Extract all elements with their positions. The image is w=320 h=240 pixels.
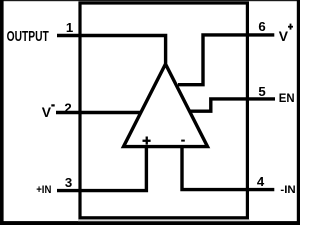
op-amp minus input marker [181,140,185,142]
wire pin6 V+ to op-amp right edge [178,35,274,85]
frame right bar [297,0,300,225]
wire pin1 OUTPUT to op-amp apex [57,36,166,64]
frame bottom bar [0,221,300,225]
svg-text:V: V [279,28,289,44]
label V+ [279,24,293,44]
svg-text:+IN: +IN [36,184,51,196]
wire pin3 +IN to op-amp base [57,147,146,191]
op-amp plus input marker [143,137,151,145]
wire pin5 EN to op-amp right edge [190,99,275,111]
wire pin2 V- to op-amp left edge [56,111,141,114]
frame left bar [0,0,4,225]
svg-text:3: 3 [65,175,72,190]
wire pin4 -IN to op-amp base [182,147,274,190]
svg-text:2: 2 [64,100,71,115]
svg-text:V: V [42,104,52,120]
svg-text:6: 6 [258,19,265,34]
svg-text:OUTPUT: OUTPUT [7,29,49,45]
svg-text:1: 1 [66,20,73,35]
svg-text:5: 5 [258,84,265,99]
svg-text:EN: EN [279,91,295,105]
frame top edge [0,0,300,1]
svg-text:-IN: -IN [280,184,295,196]
label V- [42,104,55,120]
IC package outline U1 [80,3,247,218]
op-amp A1 triangle [124,64,208,147]
svg-text:4: 4 [257,174,265,189]
